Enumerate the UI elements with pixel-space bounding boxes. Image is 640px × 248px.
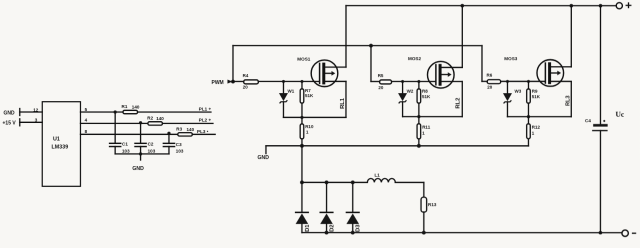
wire drop to R6 bbox=[482, 80, 487, 82]
wire drop to R5 bbox=[371, 81, 380, 83]
zener W1 bbox=[279, 81, 295, 117]
node W3 top bbox=[506, 80, 509, 83]
svg-text:MOS3: MOS3 bbox=[504, 56, 517, 61]
node bus D1 bbox=[300, 181, 304, 185]
node rail M2 bbox=[460, 4, 464, 8]
zener W2 bbox=[398, 82, 414, 117]
resistor R1 bbox=[123, 110, 138, 113]
+15V port bracket bbox=[19, 119, 21, 126]
node W2 top bbox=[401, 80, 404, 83]
svg-text:L1: L1 bbox=[374, 173, 380, 178]
resistor R6 (block3 gate) bbox=[487, 80, 501, 84]
terminal - bbox=[622, 230, 628, 236]
wire R4 to M1 gate bbox=[258, 80, 319, 82]
wire block3 bottom row bbox=[507, 116, 571, 118]
svg-text:LM339: LM339 bbox=[51, 144, 68, 150]
resistor R7 bbox=[300, 82, 314, 118]
svg-text:PL2 +: PL2 + bbox=[199, 118, 212, 123]
svg-text:R8: R8 bbox=[422, 89, 428, 94]
wire drop to block3 gate bbox=[481, 46, 483, 82]
node bus block2 drop bbox=[369, 44, 373, 48]
wire row2 to PL2 bbox=[162, 122, 213, 124]
diode D2 bbox=[320, 212, 335, 232]
inductor L1 bbox=[367, 173, 395, 183]
wire gate distribution bus bbox=[233, 45, 482, 47]
MOSFET MOS1 bbox=[297, 57, 346, 87]
freewheel bus wire bbox=[302, 181, 367, 183]
wire drop to block2 gate bbox=[370, 46, 372, 82]
node row1 C1 tap bbox=[114, 110, 117, 113]
diode D1 bbox=[296, 212, 311, 232]
wire M3 drain riser bbox=[570, 6, 572, 67]
resistor R3 bbox=[178, 133, 193, 136]
svg-text:PL3 •: PL3 • bbox=[197, 129, 209, 134]
wire to GND stub bbox=[140, 154, 142, 160]
svg-text:C2: C2 bbox=[148, 142, 154, 147]
svg-text:R5: R5 bbox=[378, 73, 384, 78]
svg-text:R4: R4 bbox=[243, 73, 249, 78]
svg-text:MOS1: MOS1 bbox=[297, 57, 310, 62]
resistor R8 bbox=[417, 82, 431, 117]
wire R5 to M2 gate bbox=[392, 81, 436, 83]
resistor R5 (block2 gate) bbox=[380, 80, 392, 84]
svg-text:GND: GND bbox=[257, 155, 269, 161]
capacitor C3 bbox=[163, 134, 184, 154]
wire D3 column bbox=[352, 182, 354, 212]
svg-text:4: 4 bbox=[85, 118, 88, 123]
svg-text:W3: W3 bbox=[514, 88, 521, 93]
GND rail (sense common) bbox=[266, 145, 528, 147]
top +rail bbox=[346, 5, 616, 7]
IC U1 box bbox=[42, 102, 80, 187]
wire riser block1 to bus bbox=[232, 46, 234, 82]
svg-text:D2: D2 bbox=[329, 224, 335, 231]
svg-text:R12: R12 bbox=[532, 125, 541, 130]
svg-text:20: 20 bbox=[487, 85, 493, 90]
wire block2 bottom row bbox=[403, 116, 463, 118]
wire +15V to pin 3 bbox=[20, 121, 42, 123]
svg-text:3: 3 bbox=[35, 117, 38, 122]
GND port bracket bbox=[19, 109, 21, 116]
wire D2 column bbox=[326, 182, 328, 212]
svg-text:U1: U1 bbox=[53, 137, 60, 143]
svg-text:RL3: RL3 bbox=[565, 95, 571, 106]
svg-text:PWM: PWM bbox=[211, 80, 223, 86]
svg-text:C4: C4 bbox=[585, 118, 591, 123]
node R10 top bbox=[300, 116, 303, 119]
resistor R9 bbox=[527, 81, 541, 116]
wire L1 to R13 bbox=[395, 181, 424, 183]
node R7 top bbox=[300, 80, 303, 83]
wire PWM node to R4 bbox=[233, 80, 244, 82]
svg-text:R6: R6 bbox=[486, 73, 492, 78]
wire row1 pin5 out bbox=[80, 111, 123, 113]
svg-text:C3: C3 bbox=[176, 142, 182, 147]
svg-text:C1: C1 bbox=[122, 142, 128, 147]
svg-text:20: 20 bbox=[243, 85, 249, 90]
svg-text:GND: GND bbox=[3, 110, 15, 116]
svg-text:51K: 51K bbox=[305, 93, 314, 98]
node rail R10 bbox=[300, 144, 304, 148]
diode D3 bbox=[346, 212, 361, 232]
svg-text:R11: R11 bbox=[422, 125, 431, 130]
wire row1 to PL1 bbox=[138, 111, 211, 113]
node rail C4 bbox=[599, 4, 603, 8]
svg-text:103: 103 bbox=[176, 148, 184, 153]
node bus D3 bbox=[351, 181, 355, 185]
node R8 top bbox=[417, 80, 420, 83]
svg-text:20: 20 bbox=[378, 85, 384, 90]
node R11 top bbox=[417, 115, 420, 118]
svg-text:103: 103 bbox=[122, 148, 130, 153]
node bottom D3 bbox=[351, 231, 355, 235]
MOSFET MOS2 bbox=[408, 56, 462, 88]
node rail R11 bbox=[417, 144, 421, 148]
node rail M3 bbox=[569, 4, 573, 8]
node PWM gate bus bbox=[231, 80, 235, 84]
wire M3 source drop bbox=[570, 81, 572, 116]
node cap common bbox=[139, 152, 142, 155]
node W1 top bbox=[282, 80, 285, 83]
svg-text:R3: R3 bbox=[176, 127, 182, 132]
resistor R12 (sense) bbox=[527, 117, 541, 146]
PWM arrow bbox=[227, 80, 232, 84]
svg-text:R1: R1 bbox=[121, 104, 127, 109]
svg-text:PL1 +: PL1 + bbox=[199, 107, 212, 112]
svg-text:W1: W1 bbox=[287, 89, 294, 94]
svg-text:D3: D3 bbox=[356, 224, 362, 232]
wire M2 drain riser bbox=[461, 6, 463, 68]
svg-text:5: 5 bbox=[85, 107, 88, 112]
capacitor C2 bbox=[135, 123, 156, 154]
terminal + bbox=[616, 3, 622, 9]
node bottom R13 bbox=[422, 231, 426, 235]
resistor R2 bbox=[148, 122, 163, 125]
resistor R4 (block1 gate) bbox=[244, 80, 259, 84]
svg-text:51K: 51K bbox=[422, 94, 431, 99]
GND rail end drop bbox=[265, 146, 267, 154]
node R12 top bbox=[527, 115, 530, 118]
svg-text:R2: R2 bbox=[147, 115, 153, 120]
resistor R11 (sense) bbox=[417, 117, 431, 146]
wire M1 source drop bbox=[345, 81, 347, 117]
wire M1 drain riser bbox=[345, 6, 347, 67]
svg-text:51K: 51K bbox=[532, 94, 541, 99]
node bottom C4 bbox=[599, 231, 603, 235]
svg-text:R9: R9 bbox=[532, 89, 538, 94]
svg-text:140: 140 bbox=[186, 127, 194, 132]
zener W3 bbox=[503, 81, 522, 116]
svg-text:W2: W2 bbox=[407, 89, 414, 94]
resistor R10 (sense) bbox=[300, 117, 314, 145]
svg-text:GND: GND bbox=[132, 166, 144, 172]
wire capacitor common bbox=[115, 153, 169, 155]
capacitor C4 bbox=[585, 6, 608, 233]
svg-text:RL2: RL2 bbox=[456, 98, 462, 109]
wire row3 pin8 out bbox=[80, 133, 177, 135]
wire M2 source drop bbox=[461, 82, 463, 117]
resistor R13 bbox=[421, 182, 437, 232]
bottom -rail bbox=[302, 232, 622, 234]
node row3 C3 tap bbox=[167, 132, 170, 135]
svg-text:140: 140 bbox=[132, 104, 140, 109]
wire block1 bottom row bbox=[283, 116, 346, 118]
node R9 top bbox=[527, 80, 530, 83]
svg-text:+15 V: +15 V bbox=[2, 121, 16, 127]
svg-text:R10: R10 bbox=[305, 124, 314, 129]
node row2 C2 tap bbox=[139, 121, 142, 124]
svg-text:8: 8 bbox=[85, 129, 88, 134]
svg-text:Uc: Uc bbox=[615, 110, 624, 119]
wire GND to pin 12 bbox=[20, 111, 43, 113]
svg-text:D1: D1 bbox=[305, 224, 311, 232]
node bus D2 bbox=[325, 181, 329, 185]
node bottom D2 bbox=[325, 231, 329, 235]
svg-text:103: 103 bbox=[148, 148, 156, 153]
capacitor C1 bbox=[110, 112, 131, 154]
svg-text:140: 140 bbox=[156, 116, 164, 121]
svg-text:R13: R13 bbox=[428, 202, 437, 207]
wire row2 pin4 out bbox=[80, 122, 147, 124]
wire row3 to PL3 bbox=[192, 133, 215, 135]
wire R6 to M3 gate bbox=[501, 80, 546, 82]
svg-text:RL1: RL1 bbox=[340, 97, 346, 109]
wire D1 column bbox=[301, 146, 303, 213]
svg-text:MOS2: MOS2 bbox=[408, 56, 421, 61]
MOSFET MOS3 bbox=[504, 56, 571, 86]
